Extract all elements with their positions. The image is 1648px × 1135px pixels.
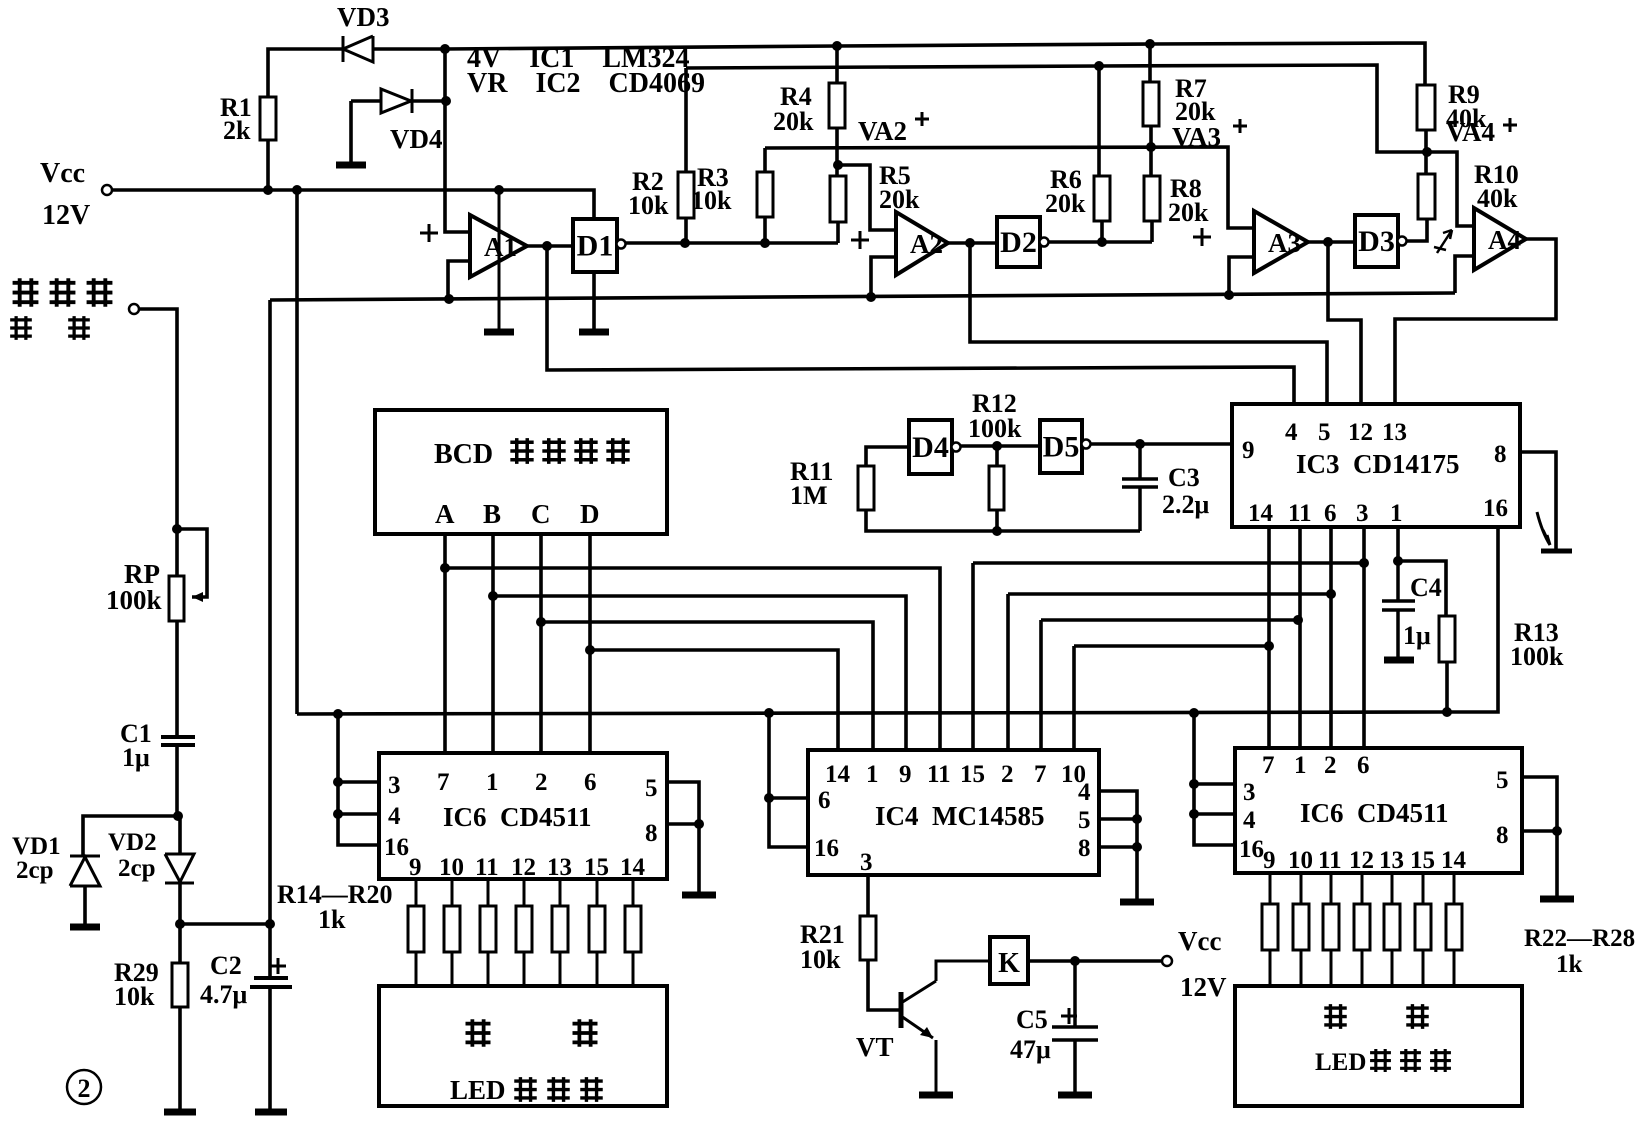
terminal Vcc 2 xyxy=(1162,956,1172,966)
IC IC3 CD14175 xyxy=(1232,404,1520,527)
svg-text:IC4 MC14585: IC4 MC14585 xyxy=(875,801,1045,831)
svg-text:14: 14 xyxy=(1441,847,1467,874)
svg-text:12V: 12V xyxy=(42,200,90,231)
diode VD4 xyxy=(381,89,412,113)
capacitor C4 xyxy=(1382,561,1415,658)
wire B to IC4 pin 9 xyxy=(493,596,906,750)
inverter bubble D4 xyxy=(952,443,961,452)
wire D1 to ground xyxy=(592,272,596,330)
node A1 feedback tap xyxy=(444,294,454,304)
cjk jie xyxy=(13,278,39,306)
svg-text:LED: LED xyxy=(450,1075,506,1105)
cjk guan xyxy=(606,438,629,464)
svg-text:15: 15 xyxy=(960,761,985,788)
wire C to IC4 pin 1 xyxy=(541,622,873,750)
wire Vcc drop to bus xyxy=(295,190,299,714)
ground R29 xyxy=(164,1109,196,1116)
node R3 bottom xyxy=(760,238,770,248)
wire R7 to R8 xyxy=(1149,126,1153,176)
svg-text:4: 4 xyxy=(388,803,401,830)
wire drop IC4 pin 2 xyxy=(1006,594,1010,750)
svg-text:6: 6 xyxy=(1357,752,1370,779)
wire 4V node to A1 plus input xyxy=(445,49,470,232)
svg-text:3: 3 xyxy=(1356,500,1369,527)
wire VD2 to R29 xyxy=(178,883,182,963)
node IC4 supply tap xyxy=(764,708,774,718)
wire R8 bottom xyxy=(1150,221,1154,242)
node IC6R pin3 xyxy=(1189,779,1199,789)
cjk gong xyxy=(50,278,76,306)
svg-text:8: 8 xyxy=(1494,441,1507,468)
wire C1 bottom xyxy=(175,745,179,816)
wire rectifier node to C2 xyxy=(180,922,270,926)
wire input to RP xyxy=(139,309,177,576)
wire IC3 pin 14 to IC6R pin 7 xyxy=(1267,527,1271,748)
cjk shu4 left xyxy=(514,1077,537,1102)
node A1 power tap xyxy=(494,185,504,195)
svg-text:6: 6 xyxy=(1324,500,1337,527)
resistor R4 xyxy=(829,83,845,128)
node A2 output xyxy=(965,238,975,248)
svg-text:11: 11 xyxy=(1318,847,1342,874)
wire D5 output to IC3 pin 9 xyxy=(1090,442,1232,446)
svg-text:14: 14 xyxy=(620,854,646,881)
svg-text:1M: 1M xyxy=(790,481,828,510)
ground D1 xyxy=(579,329,609,336)
svg-text:D3: D3 xyxy=(1358,225,1395,258)
wire A2 output to IC3 pin 5 xyxy=(970,243,1327,404)
wire second rail to A4 plus xyxy=(686,65,1474,226)
svg-text:9: 9 xyxy=(899,761,912,788)
svg-text:2: 2 xyxy=(1324,752,1337,779)
wire RP wiper loop xyxy=(177,529,207,597)
wire A2 output to D2 xyxy=(948,241,997,245)
op-amp A3 xyxy=(1254,211,1308,273)
svg-text:10k: 10k xyxy=(691,186,732,215)
wire feedback bus drop xyxy=(268,300,272,924)
inverter D1 xyxy=(573,219,617,272)
node R6 top xyxy=(1094,61,1104,71)
svg-text:D1: D1 xyxy=(577,230,614,263)
svg-text:20k: 20k xyxy=(773,107,814,136)
plus mark VA2 xyxy=(915,112,929,126)
svg-text:4.7μ: 4.7μ xyxy=(200,980,248,1009)
resistor R10 xyxy=(1418,174,1435,219)
wire to VD2 xyxy=(178,816,182,854)
svg-text:A: A xyxy=(435,499,455,529)
cjk fang xyxy=(87,278,113,306)
svg-text:B: B xyxy=(483,499,501,529)
output probe arrow xyxy=(1541,549,1572,554)
svg-text:9: 9 xyxy=(1263,847,1276,874)
node pin14 branch xyxy=(1264,641,1274,651)
svg-text:8: 8 xyxy=(645,820,658,847)
cjk yin right xyxy=(1406,1004,1429,1029)
wire IC3 pin 8 out xyxy=(1520,452,1556,549)
svg-text:5: 5 xyxy=(1496,767,1509,794)
wire A1 output to IC3 pin 4 xyxy=(547,246,1294,404)
svg-text:10: 10 xyxy=(439,854,464,881)
wire IC6L pin 16 tap xyxy=(338,714,379,845)
wire Vcc rail to D1 top xyxy=(112,190,594,219)
resistor R12 xyxy=(989,466,1004,510)
diode VD1 xyxy=(70,856,100,886)
svg-text:VD2: VD2 xyxy=(108,829,157,856)
svg-text:D5: D5 xyxy=(1043,431,1080,464)
svg-text:1k: 1k xyxy=(318,905,346,934)
ground C4 xyxy=(1384,657,1414,664)
node VA3 xyxy=(1146,142,1156,152)
svg-text:6: 6 xyxy=(584,769,597,796)
wire A2 inverting input to bus xyxy=(871,257,896,297)
node R6 bottom xyxy=(1097,237,1107,247)
ground VD4 xyxy=(336,162,366,169)
svg-text:14: 14 xyxy=(825,761,851,788)
transistor VT xyxy=(899,992,904,1028)
node C3 top xyxy=(1135,439,1145,449)
svg-text:C3: C3 xyxy=(1168,463,1200,492)
wire IC4 pin 3 to R21 xyxy=(866,875,870,916)
svg-text:A3: A3 xyxy=(1268,228,1301,258)
cjk kai xyxy=(574,438,597,464)
wire BCD A to IC6 pin 7 xyxy=(443,534,447,753)
ground C5 xyxy=(1058,1092,1092,1099)
figure number 2 xyxy=(67,1070,101,1104)
inverter D5 xyxy=(1040,420,1082,473)
resistor R1 xyxy=(260,97,276,140)
ground IC6L xyxy=(682,892,716,899)
cjk bo xyxy=(510,438,533,464)
svg-text:1μ: 1μ xyxy=(122,743,150,772)
wire VD4 to ground xyxy=(349,101,353,163)
wire D4 output to D5 xyxy=(960,444,1040,448)
wire R1 bottom xyxy=(266,140,270,190)
svg-text:5: 5 xyxy=(1078,807,1091,834)
wire IC4 pin 6 tap xyxy=(769,796,808,800)
node IC6R supply tap xyxy=(1189,708,1199,718)
plus mark C5 xyxy=(1061,1008,1077,1024)
svg-text:5: 5 xyxy=(1318,419,1331,446)
wire IC3 pin 11 to IC4 pin 7 line xyxy=(1041,618,1298,622)
wire D4 input from R11 top xyxy=(866,447,909,466)
svg-text:5: 5 xyxy=(645,775,658,802)
svg-text:3: 3 xyxy=(388,772,401,799)
wire D2 output line xyxy=(1048,240,1152,244)
wire IC3 pin 1 xyxy=(1396,527,1400,561)
IC IC6 CD4511 right xyxy=(1235,748,1522,873)
wire IC6R pin 8 xyxy=(1522,829,1557,833)
node IC6L pin8 xyxy=(694,819,704,829)
wire R9 to R10 xyxy=(1424,130,1428,174)
resistor R11 xyxy=(858,466,874,510)
node Vcc bus tap xyxy=(292,185,302,195)
svg-text:1: 1 xyxy=(486,769,499,796)
svg-text:16: 16 xyxy=(1239,836,1264,863)
svg-text:14: 14 xyxy=(1248,500,1274,527)
wire R4 top xyxy=(835,46,839,83)
node VA2 xyxy=(833,160,843,170)
svg-text:1: 1 xyxy=(866,761,879,788)
svg-text:10k: 10k xyxy=(628,191,669,220)
svg-text:7: 7 xyxy=(1262,752,1275,779)
wire R6 top long xyxy=(1097,66,1101,176)
cjk yin left xyxy=(573,1019,598,1047)
svg-text:C: C xyxy=(531,499,551,529)
IC IC6 CD4511 left xyxy=(379,753,667,879)
wire IC6R pin 3 tap xyxy=(1194,782,1235,786)
svg-text:2: 2 xyxy=(78,1074,91,1103)
wire IC3 pin 6 to IC4 pin 2 line xyxy=(1008,592,1331,596)
node VA4 xyxy=(1422,147,1432,157)
cjk guan4 right xyxy=(1430,1049,1451,1072)
wire VA2 node to A2 plus xyxy=(838,165,896,230)
node VD4 junction xyxy=(441,96,451,106)
ground VT xyxy=(919,1092,953,1099)
svg-text:12: 12 xyxy=(1348,419,1373,446)
svg-text:15: 15 xyxy=(584,854,609,881)
node IC6L supply tap xyxy=(333,709,343,719)
node RP top xyxy=(172,524,182,534)
inverter D2 xyxy=(997,217,1040,267)
wire 4V rail top xyxy=(373,43,1425,85)
IC IC4 MC14585 xyxy=(808,750,1099,875)
svg-text:16: 16 xyxy=(1483,495,1508,522)
node A3 output xyxy=(1323,237,1333,247)
node IC4 pin5 xyxy=(1132,814,1142,824)
svg-text:VD4: VD4 xyxy=(390,124,443,154)
svg-text:16: 16 xyxy=(814,835,839,862)
node C branch xyxy=(536,617,546,627)
op-amp A1 xyxy=(470,215,527,277)
svg-text:16: 16 xyxy=(384,834,409,861)
wire A4 inverting input to bus xyxy=(1455,256,1474,293)
svg-text:IC6 CD4511: IC6 CD4511 xyxy=(443,802,592,832)
plus mark A1 input xyxy=(420,224,438,242)
wire R6 bottom xyxy=(1100,221,1104,242)
wire R2 top xyxy=(684,68,688,172)
svg-text:11: 11 xyxy=(927,761,951,788)
svg-text:1μ: 1μ xyxy=(1403,621,1431,650)
svg-text:BCD: BCD xyxy=(434,439,493,470)
node IC4 pin8 xyxy=(1132,842,1142,852)
node IC6R pin8 xyxy=(1552,826,1562,836)
LED display box left xyxy=(379,986,667,1106)
wire A3 inverting input to bus xyxy=(1229,257,1254,294)
ground IC6R xyxy=(1540,896,1574,903)
RP wiper arrow xyxy=(192,592,203,602)
svg-text:Vcc: Vcc xyxy=(1178,926,1221,956)
wire IC3 pin 14 to IC4 pin 10 line xyxy=(1074,644,1269,648)
node C5 top xyxy=(1070,956,1080,966)
svg-text:20k: 20k xyxy=(1045,189,1086,218)
svg-text:A2: A2 xyxy=(910,229,943,259)
wire BCD B to IC6 pin 1 xyxy=(491,534,495,753)
wire A3 output to IC3 pin 12 xyxy=(1328,242,1361,404)
wire IC6R pin 5 xyxy=(1522,777,1557,897)
svg-text:100k: 100k xyxy=(968,414,1022,443)
svg-text:9: 9 xyxy=(409,854,422,881)
node R7 top rail xyxy=(1145,39,1155,49)
node 4V rail junction xyxy=(440,44,450,54)
diode VD2 xyxy=(165,854,194,883)
diode VD3 xyxy=(343,36,373,62)
wire R29 to ground xyxy=(178,1007,182,1110)
wire IC3 pin 11 to IC6R pin 1 xyxy=(1298,527,1302,748)
svg-text:4: 4 xyxy=(1285,419,1298,446)
wire VD4 anode side xyxy=(351,99,381,103)
node IC6L pin3 xyxy=(333,777,343,787)
svg-text:A4: A4 xyxy=(1488,225,1521,255)
resistors R14-R20 xyxy=(415,879,418,986)
wire R13 bottom xyxy=(1445,662,1449,712)
node R12 top xyxy=(992,441,1002,451)
relay K xyxy=(990,937,1028,984)
wire drop IC4 pin 10 xyxy=(1072,646,1076,750)
svg-text:47μ: 47μ xyxy=(1010,1035,1051,1064)
node IC6L pin4 xyxy=(333,809,343,819)
cjk ma xyxy=(542,438,565,464)
svg-text:2.2μ: 2.2μ xyxy=(1162,490,1210,519)
inverter D3 xyxy=(1355,215,1398,267)
svg-text:6: 6 xyxy=(818,787,831,814)
node pin3 branch xyxy=(1359,558,1369,568)
wire BCD C to IC6 pin 2 xyxy=(539,534,543,753)
svg-text:IC6 CD4511: IC6 CD4511 xyxy=(1300,798,1449,828)
wire R1 top to VD3 xyxy=(268,49,343,97)
wire A1 output to D1 xyxy=(527,244,573,248)
cjk chu xyxy=(68,316,90,340)
svg-text:11: 11 xyxy=(1288,500,1312,527)
svg-text:100k: 100k xyxy=(1510,642,1564,671)
svg-text:8: 8 xyxy=(1078,835,1091,862)
svg-text:2k: 2k xyxy=(223,116,251,145)
potentiometer RP xyxy=(169,576,184,621)
svg-text:12V: 12V xyxy=(1180,972,1227,1002)
node A branch xyxy=(440,563,450,573)
wire IC6L pin 3 tap xyxy=(338,780,379,784)
resistor R2 xyxy=(678,172,694,218)
svg-text:2: 2 xyxy=(535,769,548,796)
svg-text:2: 2 xyxy=(1001,761,1014,788)
svg-text:1k: 1k xyxy=(1556,951,1583,978)
plus mark A3 input xyxy=(1193,228,1211,246)
svg-text:C2: C2 xyxy=(210,951,242,980)
svg-text:R22—R28: R22—R28 xyxy=(1524,925,1635,952)
wire R12 top xyxy=(995,446,999,466)
svg-text:11: 11 xyxy=(475,854,499,881)
svg-text:K: K xyxy=(998,948,1020,979)
wire VD1 to ground xyxy=(83,886,87,925)
svg-text:8: 8 xyxy=(1496,822,1509,849)
svg-text:3: 3 xyxy=(1243,779,1256,806)
wire RP to C1 xyxy=(175,621,179,736)
svg-text:13: 13 xyxy=(1382,419,1407,446)
wire D1 output line xyxy=(626,241,838,245)
ground VD1 xyxy=(70,924,100,931)
node rectifier output xyxy=(175,919,185,929)
capacitor C5 xyxy=(1052,961,1098,1093)
resistor R13 xyxy=(1439,616,1455,662)
wire IC3 pin 6 to IC6R pin 2 xyxy=(1329,527,1333,748)
BCD dial switch box xyxy=(375,410,667,534)
node R13 bottom xyxy=(1442,707,1452,717)
cjk guan4 left xyxy=(580,1077,603,1102)
capacitor C1 xyxy=(161,737,195,745)
adjust arrow mark xyxy=(1434,230,1452,253)
resistor R8 xyxy=(1144,176,1160,221)
resistor R7 xyxy=(1143,82,1159,126)
svg-text:7: 7 xyxy=(437,769,450,796)
node R4 top rail xyxy=(832,41,842,51)
svg-text:VA3: VA3 xyxy=(1172,122,1221,152)
wire R2 bottom xyxy=(684,218,688,243)
plus mark A2 input xyxy=(851,231,869,249)
wire A4 output to IC3 pin 13 xyxy=(1395,239,1556,404)
wire A3 output to D3 xyxy=(1308,240,1355,244)
cjk ma4 right xyxy=(1400,1049,1421,1072)
wire to R13 top xyxy=(1398,561,1446,616)
svg-text:7: 7 xyxy=(1034,761,1047,788)
svg-text:20k: 20k xyxy=(1168,198,1209,227)
svg-text:VD3: VD3 xyxy=(337,2,390,32)
plus mark VA3 xyxy=(1233,119,1247,133)
terminal audio input xyxy=(129,304,139,314)
wire oscillator bottom line xyxy=(866,510,1140,531)
resistor R6 xyxy=(1094,176,1110,221)
svg-text:2cp: 2cp xyxy=(16,857,54,884)
svg-text:Vcc: Vcc xyxy=(40,158,85,189)
ground A1 xyxy=(484,329,514,336)
wire IC6R pin 4 tap xyxy=(1194,812,1235,816)
node R1-Vcc xyxy=(263,185,273,195)
svg-text:10k: 10k xyxy=(114,982,155,1011)
wire C2 to ground xyxy=(268,924,272,1110)
wire R3 top xyxy=(763,148,767,172)
wire A to IC4 pin 11 xyxy=(445,568,940,750)
svg-text:40k: 40k xyxy=(1477,184,1518,213)
svg-text:2cp: 2cp xyxy=(118,855,156,882)
svg-text:D: D xyxy=(580,499,600,529)
wire D to IC4 pin 14 xyxy=(590,650,838,750)
wire IC3 pin 3 to IC4 pin 15 line xyxy=(973,561,1364,565)
resistor R9 xyxy=(1417,85,1435,130)
wire IC6L pin 4 tap xyxy=(338,812,379,816)
wire R7 top xyxy=(1148,44,1152,82)
svg-text:3: 3 xyxy=(860,849,873,876)
inverter bubble D3 xyxy=(1398,237,1407,246)
resistor R29 xyxy=(172,963,188,1007)
node A1 output xyxy=(542,241,552,251)
node C4 R13 top xyxy=(1393,556,1403,566)
svg-text:10: 10 xyxy=(1288,847,1313,874)
svg-text:9: 9 xyxy=(1242,437,1255,464)
ground IC4 xyxy=(1120,899,1154,906)
op-amp A2 xyxy=(896,212,948,275)
svg-text:VT: VT xyxy=(856,1032,894,1062)
wire Vcc bus to IC3 pin 16 xyxy=(297,527,1498,714)
node D branch xyxy=(585,645,595,655)
svg-text:15: 15 xyxy=(1410,847,1435,874)
wire IC4 pin 5 xyxy=(1099,817,1137,821)
cjk gong3 left xyxy=(466,1019,491,1047)
wire drop IC4 pin 15 xyxy=(971,563,975,750)
node A3 feedback tap xyxy=(1224,290,1234,300)
ground C2 xyxy=(255,1109,287,1116)
resistor R3 xyxy=(757,172,773,217)
terminal Vcc xyxy=(102,185,112,195)
inverter D4 xyxy=(909,420,952,474)
node A2 feedback tap xyxy=(866,292,876,302)
